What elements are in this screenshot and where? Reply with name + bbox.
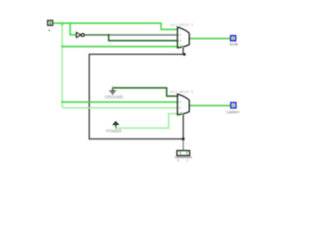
svg-text:GROUND: GROUND [105, 95, 124, 100]
svg-text:CARRY: CARRY [226, 110, 240, 114]
svg-text:4x1 MUX: 4x1 MUX [170, 89, 189, 94]
svg-text:4x1 MUX: 4x1 MUX [170, 22, 189, 27]
svg-text:POWER: POWER [106, 129, 122, 134]
svg-text:B: B [177, 159, 179, 163]
svg-text:SUM: SUM [229, 42, 238, 46]
